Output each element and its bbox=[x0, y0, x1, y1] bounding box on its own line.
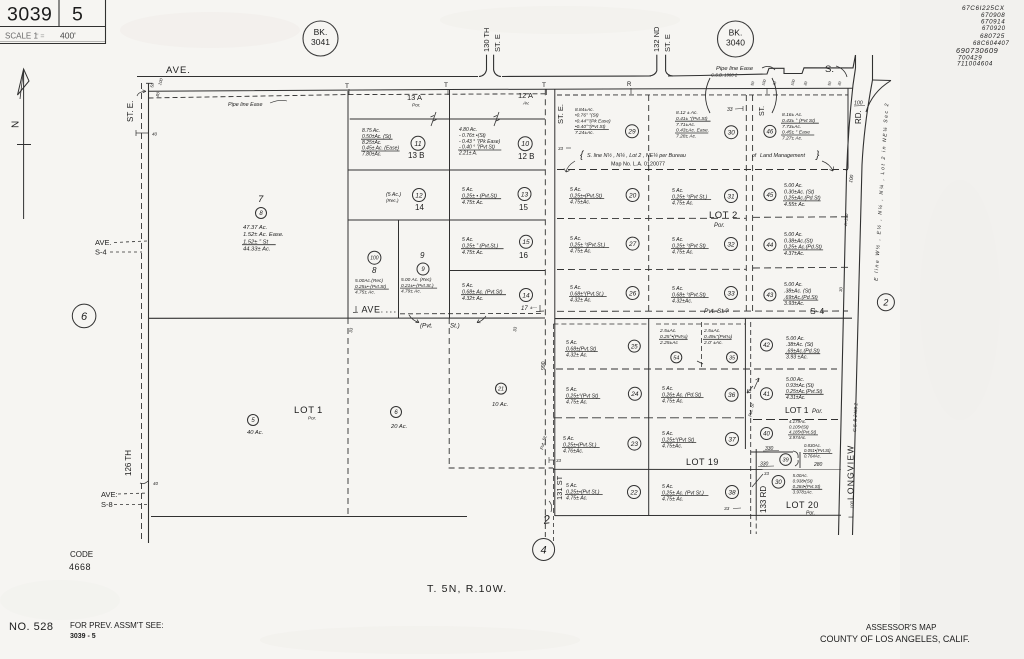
svg-text:24: 24 bbox=[630, 391, 639, 398]
corridor dashed mid bbox=[750, 322, 752, 534]
svg-text:38: 38 bbox=[728, 489, 736, 496]
svg-text:4.75± Ac.: 4.75± Ac. bbox=[566, 400, 588, 406]
avenue S-4 road line bbox=[149, 317, 545, 319]
svg-text:20: 20 bbox=[628, 192, 637, 199]
svg-text:2.5±Ac.: 2.5±Ac. bbox=[703, 328, 721, 334]
svg-text:3.93 ±Ac.: 3.93 ±Ac. bbox=[786, 355, 808, 361]
131st St W dashed line bbox=[544, 89, 546, 516]
svg-text:LOT 20: LOT 20 bbox=[786, 500, 819, 510]
131st St E solid line bbox=[554, 89, 556, 516]
parcel 26 circle bbox=[626, 287, 639, 300]
svg-text:ST. E.: ST. E. bbox=[556, 104, 565, 124]
parcel 8-9 divider bbox=[398, 220, 400, 318]
svg-text:•0.44°”(Pk Ease): •0.44°”(Pk Ease) bbox=[575, 118, 611, 124]
svg-text:7.73±Ac.: 7.73±Ac. bbox=[782, 124, 801, 130]
svg-text:16: 16 bbox=[519, 251, 528, 260]
parcel 21 circle bbox=[496, 383, 507, 394]
svg-text:S-4: S-4 bbox=[810, 306, 825, 316]
parcel 36 circle bbox=[725, 388, 738, 401]
svg-text:4.76±Ac.: 4.76±Ac. bbox=[563, 449, 583, 455]
parcel 8 circle 100 bbox=[368, 251, 381, 264]
svg-text:280: 280 bbox=[813, 462, 823, 468]
parcel 17 circle 14 bbox=[520, 289, 533, 302]
svg-text:.38±Ac. (St): .38±Ac. (St) bbox=[784, 288, 812, 294]
svg-text:0.105•(St): 0.105•(St) bbox=[789, 424, 809, 429]
row line y170 bbox=[348, 169, 545, 171]
small arrow near 54 bbox=[697, 361, 703, 364]
svg-text:21: 21 bbox=[497, 387, 504, 393]
svg-text:5 Ac.: 5 Ac. bbox=[566, 340, 578, 346]
svg-text:12 A: 12 A bbox=[518, 91, 533, 100]
corridor arrow 41 bbox=[747, 386, 753, 393]
dashed connector y468 bbox=[449, 467, 553, 469]
svg-text:26: 26 bbox=[628, 290, 637, 297]
svg-text:10: 10 bbox=[521, 141, 529, 148]
svg-text:25: 25 bbox=[630, 344, 638, 350]
svg-text:ST. E.: ST. E. bbox=[126, 101, 135, 122]
svg-text:2.21± A.: 2.21± A. bbox=[458, 151, 477, 157]
svg-text:30: 30 bbox=[728, 130, 736, 137]
svg-text:1.52± Ac. Ease.: 1.52± Ac. Ease. bbox=[243, 232, 284, 238]
svg-text:Map No. L.A. 0120077: Map No. L.A. 0120077 bbox=[611, 162, 665, 168]
svg-text:40: 40 bbox=[152, 132, 158, 137]
svg-text:7.71±Ac.: 7.71±Ac. bbox=[676, 122, 695, 128]
svg-text:COUNTY OF LOS ANGELES, CAL: COUNTY OF LOS ANGELES, CALIF. bbox=[820, 634, 970, 644]
longview rd west line bbox=[839, 68, 856, 535]
svg-text:4.32± Ac.: 4.32± Ac. bbox=[462, 296, 484, 302]
svg-text:3.93±Ac.: 3.93±Ac. bbox=[784, 301, 804, 307]
133rd Rd east solid lower bbox=[755, 449, 757, 516]
svg-text:5 Ac.: 5 Ac. bbox=[566, 387, 578, 393]
row line y369 dashed bbox=[556, 368, 837, 370]
parcel 6 circle bbox=[391, 407, 402, 418]
svg-text:33: 33 bbox=[727, 290, 735, 297]
svg-text:20 Ac.: 20 Ac. bbox=[390, 424, 407, 430]
svg-text:of: of bbox=[752, 153, 757, 159]
parcel 7 circle 8 bbox=[256, 208, 267, 219]
svg-text:2: 2 bbox=[882, 297, 888, 307]
pvt st dashed north line bbox=[400, 313, 544, 315]
svg-text:S.: S. bbox=[825, 64, 834, 75]
svg-text:•0.76° ”(St): •0.76° ”(St) bbox=[575, 113, 599, 119]
svg-text:0.938•(St): 0.938•(St) bbox=[793, 479, 814, 484]
126th St E solid line bbox=[148, 84, 150, 544]
svg-text:5 Ac.: 5 Ac. bbox=[672, 237, 684, 243]
svg-text:4.75± Ac.: 4.75± Ac. bbox=[566, 496, 588, 502]
svg-text:130 TH: 130 TH bbox=[482, 28, 491, 52]
parcel 38 circle bbox=[726, 486, 739, 499]
row line y119 13A bottom bbox=[350, 118, 545, 120]
svg-text:Por.: Por. bbox=[412, 103, 421, 109]
svg-text:5.00 Ac.: 5.00 Ac. bbox=[786, 336, 805, 342]
svg-text:0.30±Ac. (St): 0.30±Ac. (St) bbox=[784, 189, 815, 195]
parcel 9 circle 9 bbox=[417, 263, 429, 275]
dashed col divider below ave bbox=[552, 324, 554, 516]
svg-text:.38±Ac. (St): .38±Ac. (St) bbox=[786, 342, 814, 348]
svg-text:NO. 528: NO. 528 bbox=[9, 621, 53, 633]
column line at 449 bbox=[449, 90, 451, 319]
svg-text:5 Ac.: 5 Ac. bbox=[672, 188, 684, 194]
svg-text:4.32± Ac.: 4.32± Ac. bbox=[566, 353, 588, 359]
svg-text:133 RD: 133 RD bbox=[759, 486, 768, 513]
svg-text:37: 37 bbox=[728, 436, 736, 443]
svg-text:4.75± Ac.: 4.75± Ac. bbox=[662, 399, 684, 405]
parcel 30 top circle bbox=[725, 126, 738, 139]
svg-text:7.24±Ac.: 7.24±Ac. bbox=[575, 130, 594, 136]
svg-text:711004604: 711004604 bbox=[957, 60, 993, 67]
svg-text:400': 400' bbox=[60, 31, 76, 41]
avenue S road line east segment with pipeline jogs bbox=[668, 55, 856, 76]
svg-text:5 Ac.: 5 Ac. bbox=[462, 237, 474, 243]
svg-text:FOR PREV. ASSM'T SEE:: FOR PREV. ASSM'T SEE: bbox=[70, 621, 164, 630]
svg-text:AVE.: AVE. bbox=[362, 305, 384, 315]
svg-text:4.32±Ac.: 4.32±Ac. bbox=[672, 299, 692, 305]
svg-text:SCALE 1: SCALE 1 bbox=[5, 32, 38, 41]
note arrow left bbox=[566, 161, 575, 172]
svg-text:4.75± Ac.: 4.75± Ac. bbox=[672, 250, 694, 256]
parcel 24 circle bbox=[628, 387, 641, 400]
svg-text:3.978±Ac.: 3.978±Ac. bbox=[793, 490, 813, 495]
svg-text:4668: 4668 bbox=[69, 562, 91, 572]
svg-text:14: 14 bbox=[522, 292, 530, 299]
svg-text:T: T bbox=[444, 82, 448, 89]
svg-text:670914: 670914 bbox=[981, 19, 1005, 26]
svg-text:35: 35 bbox=[729, 355, 736, 361]
parcel 46 circle bbox=[764, 125, 776, 137]
tick at 767 bbox=[766, 88, 768, 94]
svg-text:S-4: S-4 bbox=[95, 248, 107, 257]
book circle BK 3040 bbox=[718, 21, 754, 57]
svg-text:13 A: 13 A bbox=[407, 93, 422, 102]
svg-text:4.75± Ac.: 4.75± Ac. bbox=[355, 290, 375, 296]
svg-text:Por.: Por. bbox=[812, 409, 823, 415]
avenue S-8 road line bbox=[151, 516, 467, 518]
longview rd stub at avenue bbox=[855, 55, 857, 68]
svg-text:42: 42 bbox=[763, 343, 770, 349]
svg-text:N: N bbox=[11, 121, 22, 128]
svg-text:Por.: Por. bbox=[714, 223, 725, 229]
svg-text:22: 22 bbox=[629, 489, 638, 496]
svg-text:5 Ac.: 5 Ac. bbox=[570, 236, 582, 242]
svg-text:Por.: Por. bbox=[308, 416, 316, 421]
svg-text:670920: 670920 bbox=[982, 26, 1006, 32]
svg-text:54: 54 bbox=[673, 355, 679, 361]
svg-text:3.974Ac.: 3.974Ac. bbox=[789, 435, 806, 440]
svg-text:100: 100 bbox=[370, 256, 379, 262]
svg-text:LOT 1: LOT 1 bbox=[785, 405, 809, 415]
svg-text:5.00Ac.(Rec): 5.00Ac.(Rec) bbox=[355, 278, 383, 284]
svg-text:17: 17 bbox=[521, 306, 528, 312]
svg-text:5.00 Ac. (Rec): 5.00 Ac. (Rec) bbox=[401, 277, 432, 283]
svg-text:4.185•(Pvt.St): 4.185•(Pvt.St) bbox=[789, 430, 817, 435]
svg-text:44: 44 bbox=[767, 243, 774, 249]
svg-text:(Rec.): (Rec.) bbox=[386, 198, 399, 203]
svg-text:33: 33 bbox=[558, 146, 564, 151]
svg-text:4.75± Ac.: 4.75± Ac. bbox=[672, 201, 694, 207]
svg-text:0.764Ac.: 0.764Ac. bbox=[804, 453, 821, 458]
svg-text:5: 5 bbox=[72, 4, 83, 26]
svg-text:4.75± Ac.: 4.75± Ac. bbox=[462, 250, 484, 256]
pipeline paren left bbox=[706, 78, 711, 113]
svg-text:2.0' ±Ac.: 2.0' ±Ac. bbox=[703, 340, 723, 346]
svg-text:5 Ac.: 5 Ac. bbox=[570, 285, 582, 291]
parcel 25 circle bbox=[628, 340, 640, 352]
svg-text:3039: 3039 bbox=[7, 4, 52, 26]
svg-text:(Pvt.: (Pvt. bbox=[420, 323, 433, 330]
pipeline easement dashed line bbox=[149, 94, 546, 98]
row line y270 bbox=[450, 270, 546, 272]
svg-text:680725: 680725 bbox=[980, 33, 1005, 40]
parcel 42 circle bbox=[761, 339, 773, 351]
svg-text:8: 8 bbox=[372, 266, 377, 275]
svg-text:ASSESSOR'S MAP: ASSESSOR'S MAP bbox=[866, 623, 936, 632]
title block box bbox=[0, 26, 106, 28]
column dashed line at 649 bbox=[648, 95, 650, 311]
corner marks 50 100 at 126th bbox=[146, 82, 153, 84]
svg-text:4.55± Ac.: 4.55± Ac. bbox=[784, 202, 806, 208]
section mark at 497 bbox=[494, 112, 500, 126]
svg-text:S. line N½ , N¼ , Lot 2 , NE¼: S. line N½ , N¼ , Lot 2 , NE¼ per Bureau bbox=[587, 152, 686, 159]
svg-text:Por.: Por. bbox=[806, 511, 815, 517]
svg-text:4.75± Ac.: 4.75± Ac. bbox=[570, 249, 592, 255]
svg-text:5 Ac.: 5 Ac. bbox=[570, 187, 582, 193]
section mark at 433 bbox=[431, 112, 437, 126]
row line y469 bbox=[553, 468, 841, 470]
parcel 41 circle bbox=[761, 388, 773, 400]
svg-text:4.31±Ac.: 4.31±Ac. bbox=[786, 395, 806, 401]
svg-text:3041: 3041 bbox=[311, 37, 330, 47]
svg-text:5.00Ac.: 5.00Ac. bbox=[793, 473, 808, 478]
parcel 5 circle bbox=[248, 415, 259, 426]
corridor below ave solid bbox=[744, 319, 746, 450]
pipeline paren right bbox=[772, 78, 777, 113]
parcel 32 circle bbox=[725, 238, 738, 251]
parcel 16 circle 15 bbox=[520, 235, 533, 248]
svg-text:10 Ac.: 10 Ac. bbox=[492, 402, 508, 408]
svg-text:7.27± Ac.: 7.27± Ac. bbox=[782, 136, 802, 142]
svg-text:LOT: LOT bbox=[294, 405, 315, 416]
svg-text:31: 31 bbox=[727, 193, 735, 200]
longview rd east line bbox=[853, 80, 873, 535]
svg-text:5 Ac.: 5 Ac. bbox=[566, 483, 578, 489]
circle 6 region bbox=[72, 304, 96, 328]
parcel 12B circle 10 bbox=[518, 137, 532, 151]
parcel 30 lower circle bbox=[772, 476, 785, 489]
svg-text:4.179Ac.: 4.179Ac. bbox=[789, 419, 806, 424]
svg-text:AVE:: AVE: bbox=[101, 490, 118, 499]
svg-text:33: 33 bbox=[764, 471, 769, 476]
dashed top row 54 35 bbox=[656, 323, 745, 325]
parcel 39 circle bbox=[780, 454, 792, 466]
svg-text:CODE: CODE bbox=[70, 550, 93, 559]
svg-text:ST. E: ST. E bbox=[493, 34, 502, 52]
svg-text:47.37 Ac.: 47.37 Ac. bbox=[243, 225, 267, 231]
svg-text:ST.: ST. bbox=[759, 106, 766, 116]
parcel 29 circle bbox=[626, 125, 639, 138]
private st corridor east dashed bbox=[752, 95, 754, 311]
svg-text:AVE.: AVE. bbox=[95, 238, 112, 247]
svg-text:R: R bbox=[627, 82, 632, 88]
svg-text:126 TH: 126 TH bbox=[124, 450, 133, 476]
svg-text:4.79± Ac.: 4.79± Ac. bbox=[401, 289, 421, 295]
parcel 39 outline bbox=[751, 451, 793, 453]
svg-text:3039 - 5: 3039 - 5 bbox=[70, 633, 96, 640]
svg-text:7: 7 bbox=[258, 194, 264, 205]
svg-text:45: 45 bbox=[767, 193, 774, 199]
svg-text:8.16± Ac.: 8.16± Ac. bbox=[782, 112, 802, 118]
svg-text:AVE.: AVE. bbox=[166, 65, 191, 76]
svg-text:23: 23 bbox=[630, 441, 639, 448]
svg-text:29: 29 bbox=[627, 129, 636, 136]
svg-text:5 Ac.: 5 Ac. bbox=[462, 283, 474, 289]
svg-text:4.75±Ac.: 4.75±Ac. bbox=[662, 444, 682, 450]
parcel 22 circle bbox=[628, 486, 641, 499]
parcel 13B circle 11 bbox=[411, 136, 425, 150]
svg-text:15: 15 bbox=[522, 239, 530, 246]
svg-text:131 ST: 131 ST bbox=[555, 475, 564, 500]
svg-text:15: 15 bbox=[519, 203, 528, 212]
svg-text:7.80±Ac.: 7.80±Ac. bbox=[362, 152, 382, 158]
svg-text:4.75± Ac.: 4.75± Ac. bbox=[462, 200, 484, 206]
parcel 44 circle bbox=[764, 239, 776, 251]
svg-text:1: 1 bbox=[317, 405, 322, 416]
circle 4 region bbox=[533, 539, 555, 561]
dashed divider 54-35 bbox=[701, 322, 703, 369]
svg-text:40: 40 bbox=[763, 432, 770, 438]
svg-text:12 B: 12 B bbox=[518, 152, 534, 161]
svg-text:40: 40 bbox=[153, 481, 159, 486]
svg-text:36: 36 bbox=[728, 392, 736, 399]
svg-text:4.32± Ac.: 4.32± Ac. bbox=[570, 298, 592, 304]
svg-text:±—: ±— bbox=[530, 305, 537, 310]
corridor arrow leader bbox=[754, 378, 759, 389]
svg-text:43: 43 bbox=[767, 293, 774, 299]
svg-text:RD.: RD. bbox=[854, 110, 863, 124]
132nd St E stub bbox=[656, 55, 658, 71]
parcel 14 circle 12 bbox=[413, 189, 426, 202]
svg-text:" =: " = bbox=[36, 34, 45, 41]
section north line bbox=[149, 88, 854, 91]
svg-text:7.28± Ac.: 7.28± Ac. bbox=[676, 134, 696, 140]
row line y220 bbox=[348, 219, 545, 221]
parcel 7 east boundary bbox=[347, 91, 349, 318]
svg-text:13: 13 bbox=[521, 191, 529, 198]
svg-text:67C6I225CX: 67C6I225CX bbox=[962, 5, 1005, 12]
parcel 20 circle bbox=[626, 189, 639, 202]
svg-text:C.S.B. 1968-2: C.S.B. 1968-2 bbox=[711, 73, 738, 78]
circle 2 region bbox=[877, 294, 894, 311]
parcel 46 east boundary bbox=[847, 88, 849, 168]
avenue S road line west segment bbox=[137, 76, 478, 78]
svg-text:33: 33 bbox=[556, 458, 562, 463]
svg-text:0.38±Ac.(St): 0.38±Ac.(St) bbox=[784, 238, 813, 244]
avenue S-4 dashed north line bbox=[557, 310, 848, 312]
svg-text:T. 5N, R.10W.: T. 5N, R.10W. bbox=[427, 583, 507, 595]
parcel 37 circle bbox=[726, 433, 739, 446]
svg-text:ST. E: ST. E bbox=[663, 34, 672, 52]
svg-text:Pipe line Ease: Pipe line Ease bbox=[716, 66, 754, 72]
svg-text:5 Ac.: 5 Ac. bbox=[672, 286, 684, 292]
svg-text:8.12 ± Ac.: 8.12 ± Ac. bbox=[676, 110, 698, 116]
parcel 23 circle bbox=[628, 437, 641, 450]
svg-text:132 ND: 132 ND bbox=[652, 26, 661, 52]
svg-text:L.: L. bbox=[849, 512, 856, 518]
avenue S road line mid segment bbox=[502, 75, 651, 78]
parcel 45 circle bbox=[764, 189, 776, 201]
svg-text:5.00 Ac.: 5.00 Ac. bbox=[784, 232, 803, 238]
parcel 35 circle bbox=[727, 352, 738, 363]
svg-text:BK.: BK. bbox=[729, 28, 743, 38]
parcel 33 circle bbox=[725, 287, 738, 300]
svg-text:8.84±Ac.: 8.84±Ac. bbox=[575, 107, 594, 113]
svg-text:4.75± Ac.: 4.75± Ac. bbox=[662, 497, 684, 503]
svg-text:5 Ac.: 5 Ac. bbox=[662, 431, 674, 437]
svg-text:T: T bbox=[542, 82, 546, 89]
svg-text:46: 46 bbox=[767, 130, 774, 136]
svg-text:9: 9 bbox=[420, 251, 425, 260]
svg-text:3040: 3040 bbox=[726, 38, 745, 48]
svg-text:5 Ac.: 5 Ac. bbox=[462, 187, 474, 193]
svg-text:100: 100 bbox=[850, 500, 855, 508]
svg-text:990: 990 bbox=[541, 361, 547, 370]
svg-text:4.37±Ac.: 4.37±Ac. bbox=[784, 251, 804, 257]
svg-text:5.00 Ac.: 5.00 Ac. bbox=[784, 183, 803, 189]
svg-text:33: 33 bbox=[727, 107, 733, 113]
svg-text:32: 32 bbox=[727, 241, 735, 248]
svg-text:4.75±Ac.: 4.75±Ac. bbox=[570, 200, 590, 206]
svg-text:S-8: S-8 bbox=[101, 500, 113, 509]
pvt st label arrows bbox=[409, 315, 419, 323]
svg-text:4: 4 bbox=[541, 544, 547, 556]
svg-text:St.): St.) bbox=[450, 323, 460, 330]
svg-text:LONGVIEW: LONGVIEW bbox=[846, 445, 856, 500]
svg-text:LOT 19: LOT 19 bbox=[686, 457, 719, 467]
row line y418 dashed bbox=[553, 417, 748, 419]
svg-text:30: 30 bbox=[775, 480, 782, 486]
st e leader arrow bbox=[137, 91, 146, 96]
parcel 31 circle bbox=[725, 190, 738, 203]
avenue S east of longview bbox=[873, 79, 892, 82]
svg-text:Pvt. St.?: Pvt. St.? bbox=[704, 308, 729, 315]
svg-text:13 B: 13 B bbox=[408, 151, 424, 160]
svg-text:T: T bbox=[345, 83, 349, 90]
svg-text:40 Ac.: 40 Ac. bbox=[247, 430, 263, 436]
parcel 40 circle bbox=[761, 428, 773, 440]
svg-text:41: 41 bbox=[763, 392, 770, 398]
svg-text:5 Ac.: 5 Ac. bbox=[563, 436, 575, 442]
tick 40 lower left bbox=[140, 481, 148, 484]
parcel 15 circle 13 bbox=[518, 188, 531, 201]
svg-text:11: 11 bbox=[414, 141, 421, 148]
svg-text:BK.: BK. bbox=[314, 27, 328, 37]
130th St E stub bbox=[486, 55, 488, 70]
svg-text:5 Ac.: 5 Ac. bbox=[662, 484, 674, 490]
svg-text:Pipe line Ease: Pipe line Ease bbox=[228, 102, 262, 108]
north arrow bbox=[23, 69, 25, 219]
private st corridor west dashed bbox=[745, 95, 747, 311]
svg-text:27: 27 bbox=[628, 241, 637, 248]
svg-text:}: } bbox=[815, 150, 820, 161]
parcel 54 circle bbox=[671, 352, 682, 363]
126th St E dashed line bbox=[141, 83, 143, 539]
svg-text:Av.: Av. bbox=[522, 101, 530, 107]
svg-text:12: 12 bbox=[415, 192, 423, 199]
svg-text:LOT 2: LOT 2 bbox=[709, 210, 738, 221]
svg-text:6: 6 bbox=[81, 311, 88, 323]
svg-text:33: 33 bbox=[724, 506, 730, 512]
parcel 27 circle bbox=[626, 237, 639, 250]
note arrow right bbox=[822, 161, 833, 171]
